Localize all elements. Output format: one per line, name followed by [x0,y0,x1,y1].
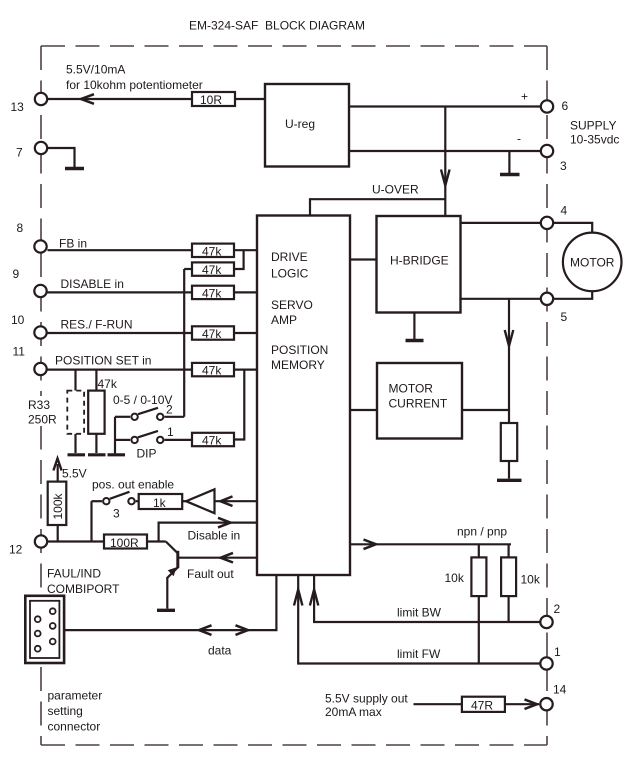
ground pin7 [48,148,75,167]
wire H-BRIDGE to pin5 [461,298,541,300]
transistor emitter ground [166,577,168,609]
svg-text:RES./ F-RUN: RES./ F-RUN [61,318,133,332]
svg-text:2: 2 [166,403,173,417]
resistor 10k right [508,544,510,557]
resistor 47k second [192,262,234,275]
svg-text:connector: connector [48,720,101,734]
resistor 47k RES [192,326,234,339]
svg-text:1: 1 [167,425,174,439]
svg-text:npn / pnp: npn / pnp [457,525,507,539]
U-OVER wire [310,199,445,216]
svg-text:2: 2 [554,602,561,616]
terminal 10 [34,326,46,338]
buffer triangle [182,500,186,502]
resistor 47k DIP1 [192,433,234,446]
svg-text:10k: 10k [445,571,465,585]
svg-text:+: + [521,90,528,104]
wire down to DIP1 47k [234,370,244,440]
svg-text:for 10kohm potentiometer: for 10kohm potentiometer [66,78,203,92]
terminal 6 [541,100,553,112]
svg-text:U-OVER: U-OVER [372,183,419,197]
parameter setting connector [25,596,64,663]
terminal 14 [540,698,552,710]
svg-text:MOTOR: MOTOR [570,256,615,270]
terminal 7 [35,142,47,154]
switch 3 [103,498,109,504]
chassis bars [68,453,86,456]
svg-text:COMBIPORT: COMBIPORT [47,582,120,596]
arrow on pin13 wire [81,94,94,104]
terminal 13 [35,93,47,105]
resistor 47k FB [192,244,234,257]
wire 47k FB to block [234,249,257,251]
ground H-BRIDGE [413,313,415,340]
terminal 5 [541,293,553,305]
wire H-BRIDGE to pin4 [461,222,541,224]
svg-text:6: 6 [562,99,569,113]
white mask for R33 text over border [26,396,57,426]
supply drop wire to H-BRIDGE [444,107,446,217]
svg-text:POSITION: POSITION [271,343,328,357]
svg-text:LOGIC: LOGIC [271,267,309,281]
terminal 12 [35,535,47,547]
DRIVE LOGIC block [257,216,350,576]
svg-text:47k: 47k [202,364,222,378]
svg-text:limit BW: limit BW [397,606,442,620]
resistor R33 dashed body [67,391,84,434]
wire pin13 to 10R [48,98,192,100]
svg-text:100R: 100R [110,536,139,550]
MOTOR CURRENT block [377,363,462,439]
resistor 100R [104,535,147,549]
svg-text:8: 8 [17,221,24,235]
motor M1 [554,223,592,233]
svg-text:7: 7 [16,146,23,160]
wire 10R to U-reg [235,98,265,100]
terminal 3 [541,145,553,157]
wire DRIVE to MOTOR CURRENT [350,409,377,411]
svg-text:14: 14 [553,683,567,697]
ground on minus rail [508,151,510,173]
svg-text:setting: setting [48,704,83,718]
svg-text:3: 3 [113,507,120,521]
svg-text:U-reg: U-reg [285,117,315,131]
svg-text:1k: 1k [153,496,167,510]
wire DISABLE row [48,291,193,293]
svg-text:0-5 / 0-10V: 0-5 / 0-10V [113,393,172,407]
resistor 10k left [478,544,480,557]
svg-text:10k: 10k [521,573,541,587]
resistor 1k [136,500,139,502]
svg-text:EM-324-SAF BLOCK DIAGRAM: EM-324-SAF BLOCK DIAGRAM [189,19,365,33]
svg-text:10R: 10R [200,93,222,107]
wire POSITION SET row [48,369,193,371]
svg-text:parameter: parameter [48,689,103,703]
resistor 47R [462,697,505,712]
svg-text:12: 12 [9,543,23,557]
wire second 47k to DIP2 vertical [184,268,192,270]
wire 47R to pin14 [505,703,539,705]
H-BRIDGE block [377,216,461,313]
resistor 10R [192,92,235,106]
svg-text:limit FW: limit FW [397,647,441,661]
terminal 11 [34,363,46,375]
wire into block DISABLE [234,291,257,293]
wire to 47R [414,703,462,705]
svg-text:3: 3 [560,159,567,173]
svg-text:SERVO: SERVO [271,298,313,312]
svg-text:1: 1 [554,645,561,659]
svg-text:9: 9 [13,267,20,281]
resistor 47k POSITION [192,363,234,376]
svg-text:47R: 47R [471,698,493,712]
terminal 1 [540,657,552,669]
svg-text:47k: 47k [202,286,222,300]
svg-text:5: 5 [561,310,568,324]
switch 3 riser [90,501,92,541]
svg-text:CURRENT: CURRENT [389,397,448,411]
wire junction down to second 47k [234,250,244,269]
wire into block POSITION [234,369,257,371]
svg-text:DIP: DIP [137,447,157,461]
svg-text:data: data [208,644,232,658]
npn/pnp drive wire [350,543,511,545]
svg-text:AMP: AMP [271,313,297,327]
svg-text:5.5V/10mA: 5.5V/10mA [66,63,125,77]
svg-text:47k: 47k [202,434,222,448]
limit FW wire [298,575,540,664]
svg-text:4: 4 [561,204,568,218]
svg-text:R33: R33 [28,398,50,412]
resistor 47k DISABLE [192,286,234,299]
svg-text:pos. out enable: pos. out enable [92,478,174,492]
svg-text:FAUL/IND: FAUL/IND [47,567,101,581]
svg-text:11: 11 [13,345,26,359]
svg-text:MEMORY: MEMORY [271,358,325,372]
svg-text:47k: 47k [202,327,222,341]
svg-text:Disable in: Disable in [188,529,241,543]
svg-text:47k: 47k [98,377,118,391]
terminal 8 [34,240,46,252]
svg-text:Fault out: Fault out [187,567,234,581]
svg-text:5.5V supply out: 5.5V supply out [325,692,408,706]
svg-text:250R: 250R [28,413,57,427]
wire FB in row [48,249,193,251]
svg-text:POSITION SET in: POSITION SET in [55,354,151,368]
DIP switch 2 [131,414,137,420]
svg-text:5.5V: 5.5V [62,467,87,481]
wire U-reg minus to pin3 [349,150,540,152]
data wire [64,575,276,630]
wire MOTOR CURRENT to sense [462,409,509,411]
sense resistor [501,423,517,461]
DIP switch 1 [131,437,137,443]
wire into block RES [234,332,257,334]
svg-text:DRIVE: DRIVE [271,250,308,264]
svg-text:DISABLE in: DISABLE in [61,277,124,291]
Disable in wire [159,523,257,542]
5.5V pull-up arrow [57,464,59,482]
svg-text:MOTOR: MOTOR [389,382,434,396]
terminal 9 [34,285,46,297]
resistor R33 stub [74,370,76,391]
wire RES/F-RUN row [48,332,193,334]
resistor 47k vertical [95,370,97,391]
U-reg block [265,84,349,167]
DIP common rail [114,417,116,454]
resistor 100k [48,482,67,525]
svg-text:-: - [517,132,521,146]
terminal 2 [540,616,552,628]
svg-text:10-35vdc: 10-35vdc [570,133,619,147]
svg-text:FB in: FB in [59,237,87,251]
svg-text:13: 13 [11,100,25,114]
wire U-reg plus to pin6 [349,105,540,107]
Fault out wire [178,557,257,559]
svg-text:47k: 47k [202,263,222,277]
wire into buffer from block [215,500,258,502]
wire pin12 row [48,540,104,542]
wire 100R to transistor [147,540,166,542]
limit BW wire [314,575,540,622]
transistor Q1 [166,542,178,553]
svg-text:H-BRIDGE: H-BRIDGE [390,254,449,268]
arrow down on supply drop [441,170,450,186]
svg-text:100k: 100k [51,492,65,519]
svg-text:20mA max: 20mA max [325,705,382,719]
terminal 4 [541,217,553,229]
svg-text:47k: 47k [202,244,222,258]
motor current sense line [508,299,510,423]
dashed enclosure border [41,46,547,745]
svg-text:SUPPLY: SUPPLY [570,119,616,133]
svg-text:10: 10 [11,313,25,327]
wire DRIVE to H-BRIDGE [350,258,377,260]
